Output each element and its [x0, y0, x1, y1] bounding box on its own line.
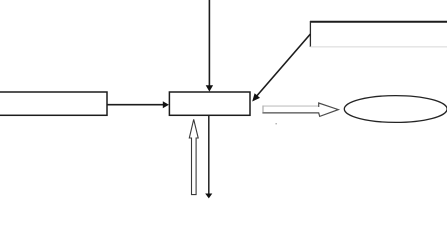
- left process box: [0, 92, 107, 115]
- arrow from central box downward: shaft: [208, 116, 210, 194]
- arrow from top into central box: head: [206, 85, 213, 91]
- arrow from top into central box: shaft: [208, 0, 210, 86]
- diagonal arrow from top-right box to central box: shaft: [257, 34, 311, 96]
- top-right box left edge: [309, 21, 311, 47]
- hollow right arrow to ellipse: outline: [263, 103, 338, 116]
- hollow up arrow below central box: [189, 119, 198, 194]
- top-right box top edge: [310, 21, 447, 23]
- top-right box bottom edge: [310, 46, 447, 48]
- diagonal arrow from top-right box to central box: head: [252, 93, 260, 101]
- stray speck artifact: [275, 123, 277, 124]
- ellipse terminator: [344, 96, 447, 123]
- hollow right arrow: light left cap: [262, 106, 264, 113]
- arrow from left box to central box: head: [163, 101, 169, 108]
- central process box: [169, 92, 250, 115]
- arrow from central box downward: head: [205, 194, 212, 199]
- hollow right arrow: light top shaft edge: [264, 105, 319, 107]
- arrow from left box to central box: shaft: [107, 104, 164, 106]
